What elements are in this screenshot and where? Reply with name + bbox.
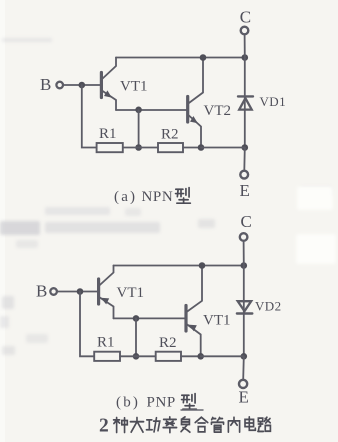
wire C stub (a) xyxy=(244,34,246,57)
junction dot top right (a) xyxy=(242,54,249,61)
da xyxy=(130,418,143,433)
terminal E (a) xyxy=(240,171,250,200)
svg-text:R2: R2 xyxy=(161,126,179,142)
svg-text:VD1: VD1 xyxy=(260,94,286,109)
terminal B (b) xyxy=(36,282,57,301)
svg-text:R2: R2 xyxy=(159,335,177,351)
junction dot on base line (a) xyxy=(135,107,142,114)
nei xyxy=(228,417,239,432)
svg-text:VT1: VT1 xyxy=(117,285,145,301)
resistor R2 (b) xyxy=(156,335,181,361)
title: 2 zhong da gong lv fu he guan nei dian lu xyxy=(99,416,270,437)
svg-text:R1: R1 xyxy=(99,126,117,142)
resistor R1 (a) xyxy=(97,126,123,152)
lv (shuai) xyxy=(163,417,176,433)
wire R1 to R2 (b) xyxy=(120,355,156,357)
svg-text:B: B xyxy=(36,282,47,301)
wire right branch (b) xyxy=(243,266,245,357)
wire bottom rail right (b) xyxy=(201,355,244,357)
wire B to VT1 base (b) xyxy=(57,291,97,293)
svg-text:(b): (b) xyxy=(116,395,140,411)
resistor R1 (b) xyxy=(94,335,120,361)
junction dot second collector (b) xyxy=(199,262,206,269)
diode VD2 xyxy=(237,299,282,314)
junction dot bottom right (b) xyxy=(241,353,248,360)
fu xyxy=(181,417,190,432)
svg-text:E: E xyxy=(239,388,249,407)
junction dot R1-R2 (b) xyxy=(133,353,140,360)
zhong xyxy=(114,418,128,433)
terminal C (a) xyxy=(240,8,251,35)
wire left branch down to R1 (a) xyxy=(82,85,97,148)
junction dot VT2 emitter (a) xyxy=(198,144,205,151)
lu xyxy=(258,417,271,431)
junction dot second emitter (b) xyxy=(197,353,204,360)
transistor VT1 (a) xyxy=(101,58,147,111)
wire junction down to R1-R2 node (b) xyxy=(135,318,137,356)
svg-text:B: B xyxy=(40,75,51,94)
wire VT1 emitter to VT2 base (a) xyxy=(116,109,186,111)
wire top rail (a) xyxy=(116,57,245,59)
svg-text:E: E xyxy=(240,181,250,200)
svg-text:PNP: PNP xyxy=(147,395,176,411)
terminal B (a) xyxy=(40,75,63,94)
resistor R2 (a) xyxy=(158,126,183,152)
junction dot top right (b) xyxy=(241,262,248,269)
svg-text:VT1: VT1 xyxy=(120,79,148,95)
faint bleed-through texture (decorative) xyxy=(0,38,332,355)
svg-text:2: 2 xyxy=(99,416,109,437)
junction dot R1-R2 (a) xyxy=(135,144,142,151)
junction dot VT2 collector (a) xyxy=(200,54,207,61)
terminal E (b) xyxy=(239,380,249,407)
svg-text:(a): (a) xyxy=(114,189,137,205)
wire R1 to R2 (a) xyxy=(123,147,158,149)
wire top rail (b) xyxy=(114,265,244,267)
dian xyxy=(245,417,255,430)
junction dot on base line (b) xyxy=(133,315,140,322)
transistor VT1 (b) xyxy=(99,266,144,319)
caption (a) NPN type xyxy=(114,188,190,205)
junction dot B branch (a) xyxy=(79,82,86,89)
transistor VT1 output (b) xyxy=(186,266,231,357)
junction dot bottom right (a) xyxy=(242,144,249,151)
svg-text:VT2: VT2 xyxy=(204,103,232,119)
svg-text:C: C xyxy=(240,8,251,27)
wire R2 to VT2 emitter node (a) xyxy=(183,147,201,149)
terminal C (b) xyxy=(240,212,252,241)
wire C stub (b) xyxy=(243,241,245,266)
svg-text:C: C xyxy=(241,212,252,231)
wire E stub (a) xyxy=(243,148,246,171)
svg-text:R1: R1 xyxy=(97,335,115,351)
wire E stub (b) xyxy=(242,356,245,379)
wire B to VT1 base (a) xyxy=(63,84,100,86)
svg-text:VT1: VT1 xyxy=(203,313,231,329)
wire bottom rail right (a) xyxy=(201,147,245,149)
wire junction down to R1-R2 node (a) xyxy=(138,110,140,148)
gong xyxy=(146,418,159,432)
wire VT1 emitter to second transistor base (b) xyxy=(114,317,185,319)
he xyxy=(195,417,208,432)
diode VD1 xyxy=(238,94,286,110)
wire R2 to second transistor emitter node (b) xyxy=(181,355,201,357)
wire left branch down to R1 (b) xyxy=(80,292,94,357)
guan xyxy=(211,418,223,433)
svg-text:VD2: VD2 xyxy=(255,299,281,314)
transistor VT2 (a) xyxy=(188,58,231,148)
wire right branch (a) xyxy=(244,58,246,148)
svg-text:NPN: NPN xyxy=(142,189,174,205)
caption (b) PNP type xyxy=(116,394,203,411)
junction dot B branch (b) xyxy=(77,288,84,295)
